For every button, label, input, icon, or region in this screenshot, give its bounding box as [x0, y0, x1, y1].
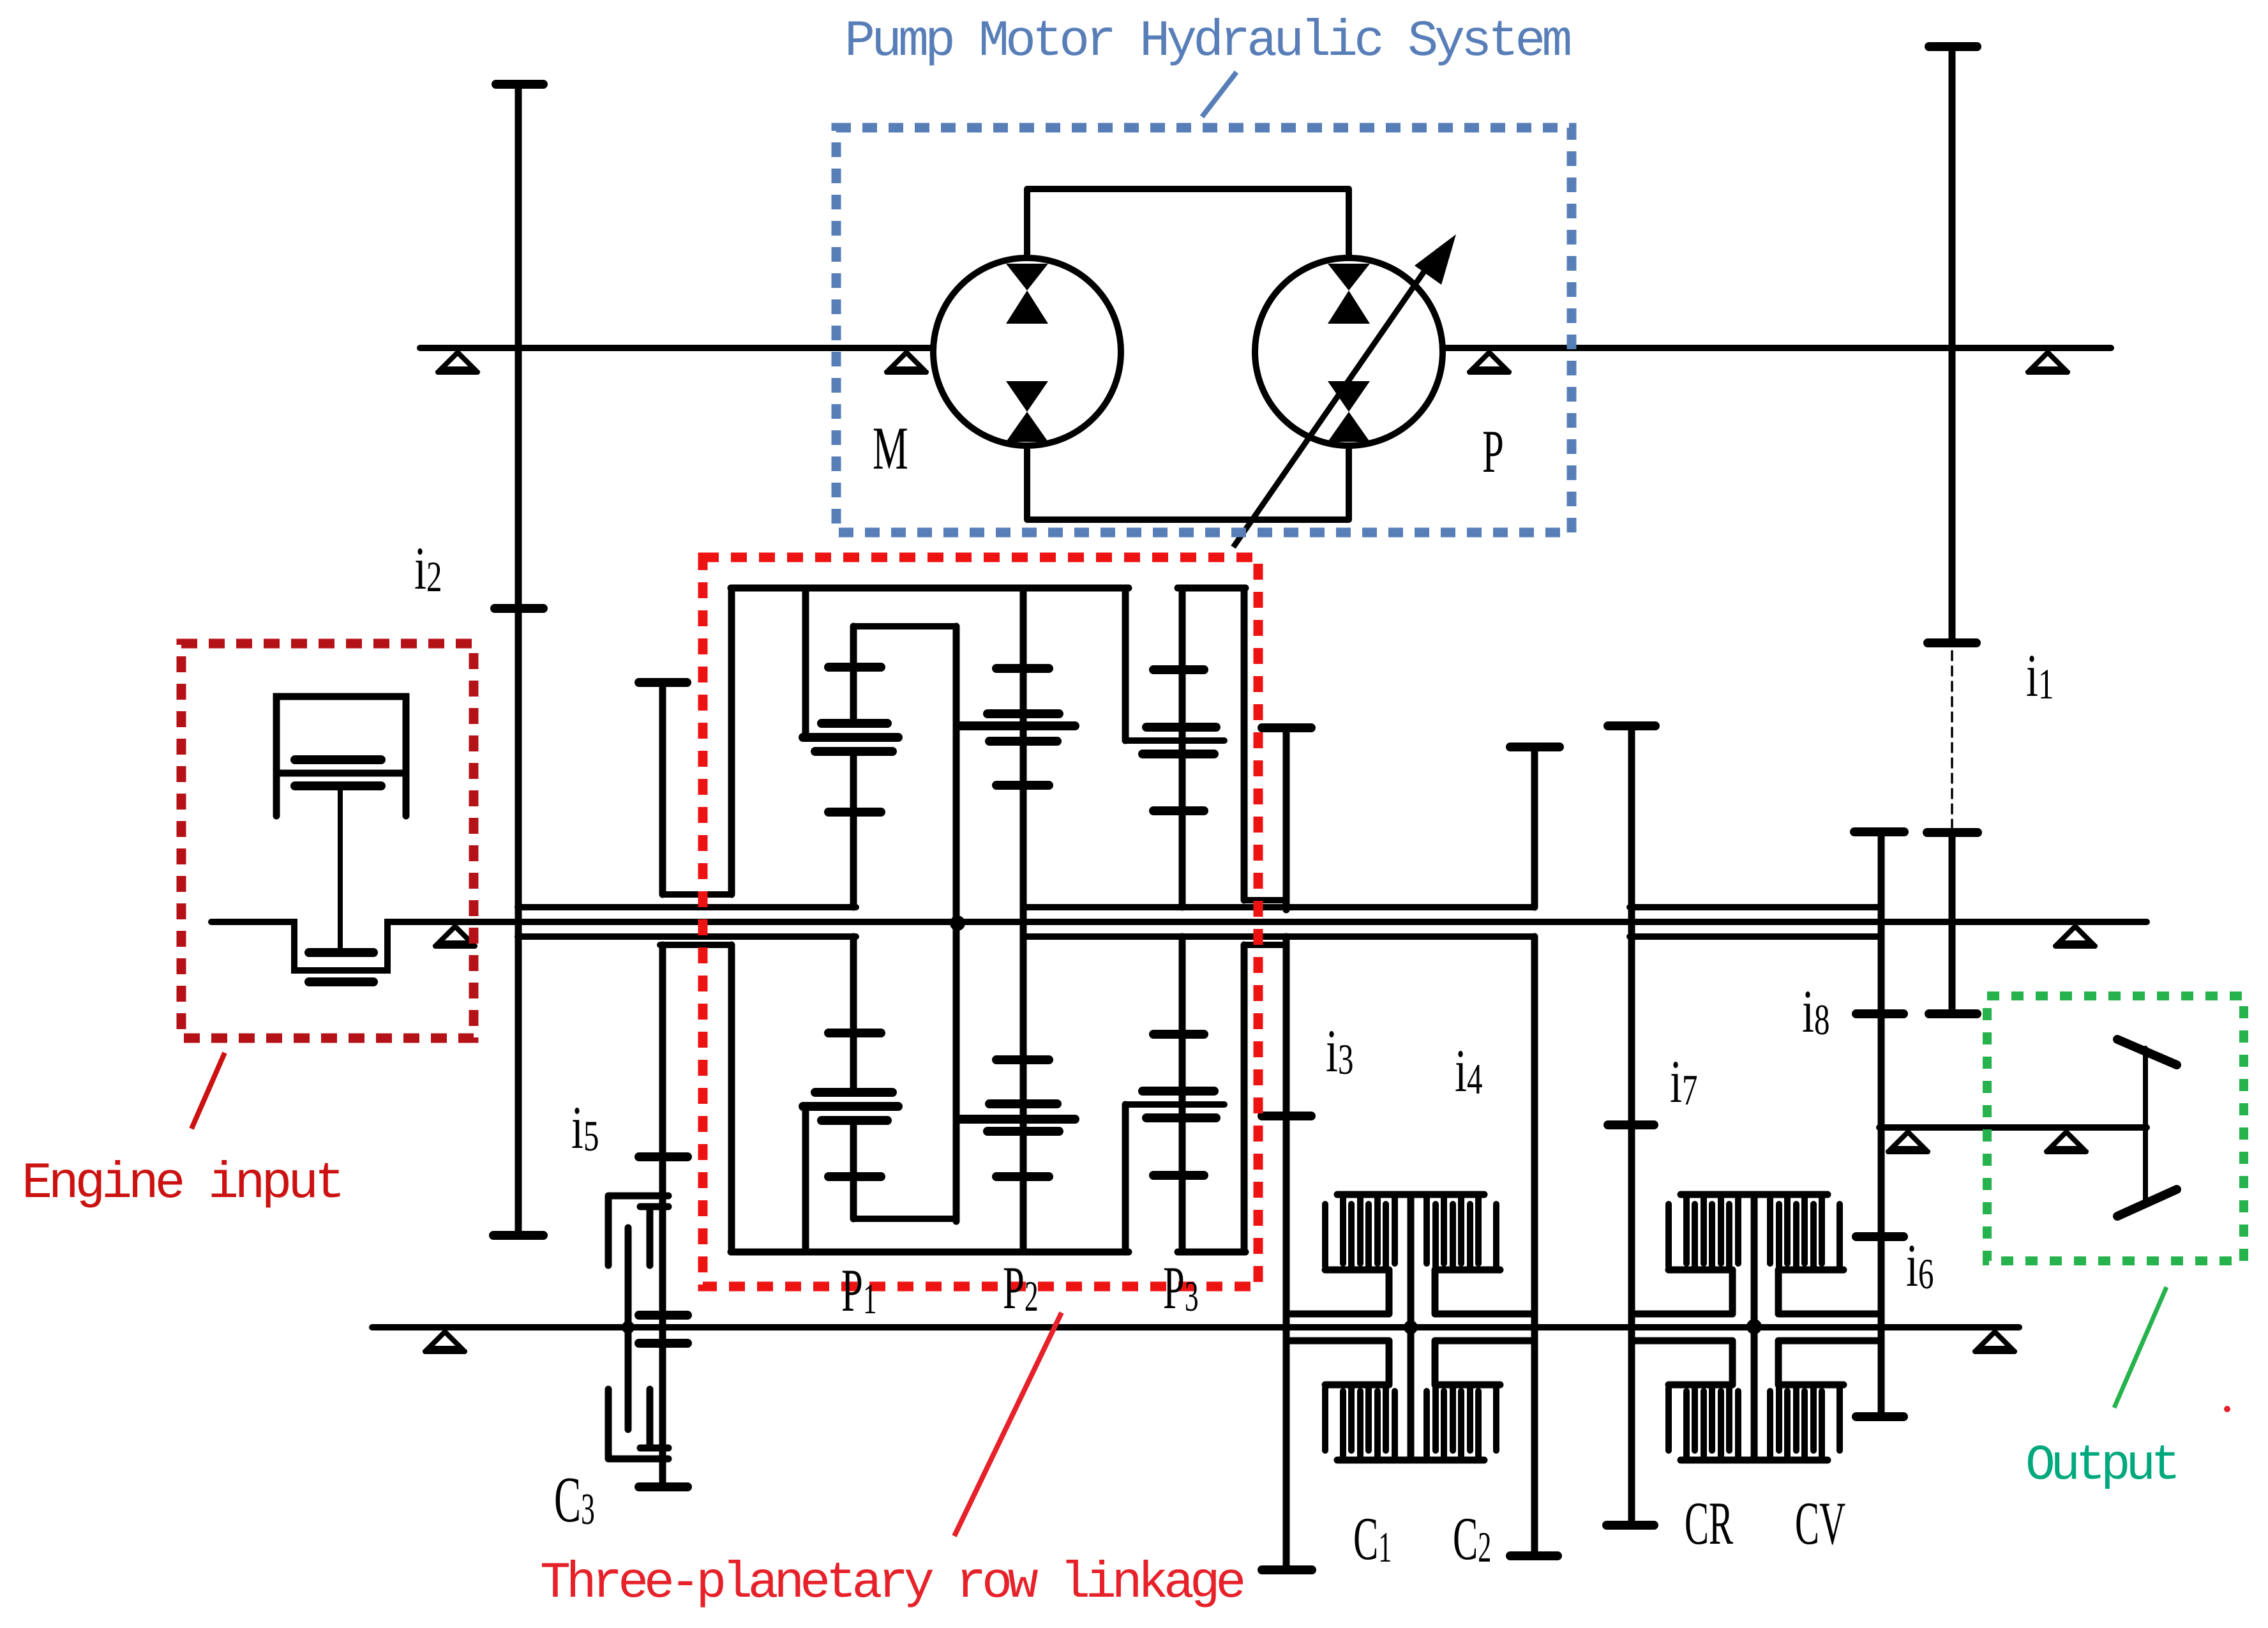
svg-text:CV: CV: [1795, 1489, 1845, 1557]
svg-text:P: P: [1482, 419, 1504, 486]
svg-text:Output: Output: [2025, 1438, 2176, 1494]
svg-text:Engine input: Engine input: [22, 1155, 342, 1213]
svg-text:CR: CR: [1685, 1489, 1734, 1557]
svg-text:Pump Motor Hydraulic System: Pump Motor Hydraulic System: [845, 13, 1570, 71]
svg-text:Three-planetary row linkage: Three-planetary row linkage: [540, 1555, 1243, 1613]
svg-text:M: M: [873, 415, 908, 482]
